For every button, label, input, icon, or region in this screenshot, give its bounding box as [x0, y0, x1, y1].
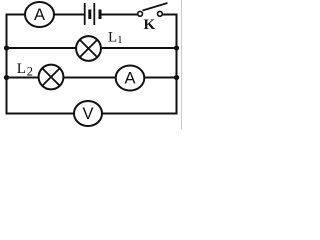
- node junction right row2: [174, 45, 179, 50]
- battery plate short thick 2: [99, 10, 102, 20]
- wire row2 left to lamp L1: [7, 47, 77, 49]
- wire right loop: switch to top-right corner, right vertical, bottom-right run: [102, 15, 177, 114]
- node junction left row2: [4, 45, 9, 50]
- wire row3 left to lamp L2: [7, 77, 40, 79]
- wire row2 lamp L1 to right: [101, 47, 177, 49]
- faint scan artifact line right edge: [181, 0, 183, 129]
- svg-text:K: K: [143, 17, 155, 33]
- ammeter A1: [25, 2, 54, 27]
- ammeter A2: [116, 66, 145, 91]
- svg-text:L2: L2: [17, 61, 33, 79]
- svg-text:A: A: [124, 70, 135, 88]
- switch K terminal circle left: [138, 11, 143, 16]
- battery plate short thick 1: [88, 10, 91, 20]
- wire ammeter A1 to battery: [54, 14, 85, 16]
- lamp L2: [39, 65, 64, 90]
- svg-text:A: A: [34, 6, 45, 24]
- battery plate long 1: [84, 3, 86, 25]
- switch K lever: [143, 3, 168, 11]
- svg-text:V: V: [82, 105, 93, 123]
- wire left loop: top-left corner, left vertical, bottom-left run: [7, 15, 75, 114]
- node junction left row3: [4, 75, 9, 80]
- lamp L1: [76, 36, 101, 61]
- wire row3 lamp L2 to ammeter A2: [63, 77, 116, 79]
- voltmeter V: [74, 101, 102, 126]
- wire row3 ammeter A2 to right: [144, 77, 177, 79]
- battery plate long 2: [93, 3, 95, 25]
- wire battery to switch: [101, 14, 139, 16]
- switch K terminal circle right: [158, 11, 163, 16]
- node junction right row3: [174, 75, 179, 80]
